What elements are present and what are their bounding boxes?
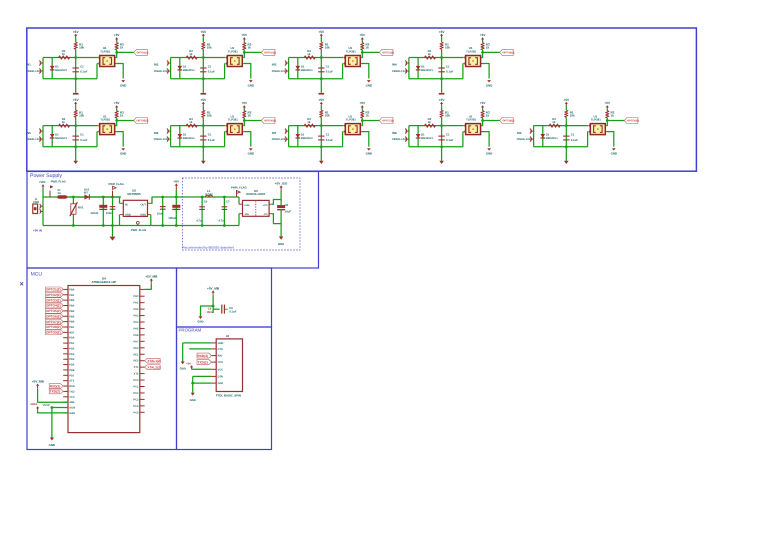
- net label OPTO5 mcu: [46, 308, 64, 313]
- svg-text:PB7: PB7: [69, 326, 75, 329]
- diode D7: [297, 126, 299, 147]
- capacitor C10 bulk: [102, 197, 104, 226]
- resistor R8B: [425, 124, 436, 127]
- wire emitter pin: [224, 63, 227, 65]
- wire: [280, 191, 282, 206]
- ground GND4B: [487, 80, 491, 82]
- pin L16: [63, 369, 68, 371]
- wire left: [170, 126, 172, 147]
- svg-text:100n: 100n: [206, 311, 212, 314]
- net label OPTO9 mcu: [46, 330, 64, 335]
- ground GND3B: [367, 80, 371, 82]
- svg-text:+5V: +5V: [242, 33, 249, 37]
- net label OPTO7: [379, 118, 393, 124]
- svg-text:GND: GND: [486, 152, 492, 156]
- resistor R5B: [59, 124, 70, 127]
- net label OPTO3 mcu: [46, 298, 64, 303]
- resistor R2A: [202, 42, 205, 49]
- wire cap node: [52, 407, 68, 409]
- svg-text:PD0: PD0: [69, 337, 75, 340]
- svg-text:C6: C6: [204, 200, 208, 203]
- capacitor C8: [438, 135, 444, 137]
- pin L8: [63, 326, 68, 328]
- svg-text:XTAL1(2): XTAL1(2): [147, 359, 160, 363]
- svg-text:10k: 10k: [207, 113, 212, 117]
- connector IN1: [40, 62, 44, 64]
- wire bottom rail: [289, 146, 343, 148]
- pin R19: [140, 411, 145, 413]
- optocoupler U3: [345, 56, 360, 67]
- pin L20: [63, 390, 68, 392]
- wire to label: [117, 120, 134, 122]
- wire emitter pin: [462, 63, 465, 65]
- svg-text:IN2: IN2: [154, 63, 159, 67]
- svg-text:100n: 100n: [106, 212, 112, 215]
- wire J2 pin7: [193, 382, 212, 384]
- opto channel 4: [392, 30, 514, 95]
- svg-text:+5V: +5V: [73, 98, 80, 102]
- wire input vertical: [42, 197, 44, 226]
- svg-text:IN: IN: [125, 203, 128, 206]
- connector IN2: [167, 62, 171, 64]
- wire collector: [115, 57, 116, 59]
- junction: [320, 145, 323, 148]
- svg-text:C1: C1: [208, 65, 212, 69]
- svg-text:D1: D1: [55, 64, 59, 68]
- svg-text:PB6: PB6: [69, 321, 75, 324]
- svg-text:GND: GND: [486, 83, 492, 87]
- svg-text:4.7u: 4.7u: [219, 219, 225, 222]
- svg-text:1k: 1k: [428, 120, 432, 124]
- wire collector: [605, 125, 606, 127]
- svg-text:4.7u: 4.7u: [196, 219, 202, 222]
- svg-text:C1: C1: [80, 133, 84, 137]
- ground GND5A: [73, 161, 78, 164]
- svg-text:RST: RST: [69, 331, 75, 334]
- opto channel 1: [26, 30, 148, 95]
- ground GND8B: [487, 148, 491, 150]
- svg-text:MC78M05: MC78M05: [127, 192, 141, 196]
- svg-text:+VIN: +VIN: [244, 204, 250, 207]
- wire converter -VOUT: [269, 213, 272, 215]
- pin L11: [63, 342, 68, 344]
- ground GND3A: [319, 93, 325, 95]
- diode D3: [297, 58, 299, 79]
- pin R7: [140, 334, 145, 336]
- wire left: [533, 126, 535, 147]
- svg-text:PB0: PB0: [69, 288, 75, 291]
- wire emitter to ground: [115, 131, 116, 133]
- svg-text:1k: 1k: [248, 113, 252, 117]
- ground GND_ISO: [279, 237, 284, 240]
- capacitor C6: [200, 135, 206, 137]
- resistor R8C: [481, 111, 484, 118]
- wire emitter to ground: [605, 131, 606, 133]
- svg-text:GND: GND: [180, 367, 186, 371]
- svg-text:+5V: +5V: [318, 98, 325, 102]
- wire top rail: [43, 57, 98, 59]
- junction: [202, 124, 205, 127]
- resistor R9A: [565, 110, 568, 117]
- svg-text:IN3: IN3: [272, 63, 277, 67]
- wire: [75, 117, 77, 125]
- diode D9: [542, 126, 544, 147]
- svg-text:AGN: AGN: [69, 407, 75, 410]
- wire to ground: [202, 79, 204, 93]
- wire left: [42, 58, 44, 79]
- junction: [320, 77, 323, 80]
- svg-text:0.1uF: 0.1uF: [208, 138, 216, 142]
- svg-text:ARF: ARF: [69, 401, 75, 404]
- pin R8: [140, 340, 145, 342]
- svg-text:PINHD-1X2: PINHD-1X2: [26, 138, 40, 141]
- svg-text:D1: D1: [421, 64, 425, 68]
- connector J1 power jack: [33, 204, 38, 214]
- svg-text:+5V: +5V: [114, 33, 121, 37]
- pin L21: [63, 396, 68, 398]
- pin R5: [140, 321, 145, 323]
- net label OPTO2: [261, 49, 275, 55]
- svg-text:GND: GND: [611, 152, 617, 156]
- svg-text:4.7uH: 4.7uH: [205, 193, 212, 196]
- svg-text:OPTO2(2): OPTO2(2): [264, 51, 276, 54]
- svg-text:IN7: IN7: [272, 131, 277, 135]
- resistor R9B: [549, 124, 560, 127]
- pin J2-2: [211, 348, 216, 350]
- wire: [441, 49, 443, 57]
- net label TXD mcu: [49, 389, 63, 394]
- svg-text:+5V: +5V: [114, 101, 121, 105]
- opto channel 7: [272, 98, 394, 164]
- wire emitter to ground: [481, 63, 482, 65]
- net label OPTO6 mcu: [46, 314, 64, 319]
- ground GND7B: [367, 148, 371, 150]
- wire bottom rail: [409, 78, 463, 80]
- net label OPTO8: [500, 118, 514, 124]
- svg-text:PROGRAM: PROGRAM: [179, 327, 202, 332]
- svg-text:+5V_ISO: +5V_ISO: [275, 181, 288, 185]
- ground GND2B: [249, 80, 253, 82]
- diode D1: [51, 58, 53, 79]
- wire collector: [115, 125, 116, 127]
- svg-text:+VO: +VO: [263, 204, 268, 207]
- wire emitter pin: [462, 131, 465, 133]
- wire to ground: [75, 79, 77, 93]
- pin R17: [140, 398, 145, 400]
- frame MCU section: [27, 268, 177, 450]
- svg-text:1k: 1k: [62, 120, 66, 124]
- wire left: [408, 58, 410, 79]
- frame recommended circuit dashed box: [182, 178, 300, 250]
- pin L17: [63, 374, 68, 376]
- svg-text:OPTO4(2): OPTO4(2): [502, 51, 514, 54]
- opto channel 3: [272, 30, 394, 95]
- svg-text:GND: GND: [248, 83, 254, 87]
- svg-text:PB3: PB3: [69, 305, 75, 308]
- svg-text:TLP281: TLP281: [591, 118, 601, 122]
- svg-text:PE1: PE1: [133, 353, 138, 356]
- svg-text:D1: D1: [301, 132, 305, 136]
- connector IN8: [405, 130, 409, 132]
- pin J2-4: [211, 361, 216, 363]
- wire top rail: [409, 125, 464, 127]
- svg-text:10k: 10k: [79, 113, 84, 117]
- svg-text:MM3Z5V1: MM3Z5V1: [301, 69, 314, 72]
- wire emitter pin: [224, 131, 227, 133]
- svg-text:OPTO3(2): OPTO3(2): [46, 298, 61, 302]
- svg-text:OPTO5(2): OPTO5(2): [137, 119, 149, 122]
- svg-text:+5V: +5V: [174, 179, 181, 183]
- pin L19: [63, 385, 68, 387]
- diode D2: [179, 58, 181, 79]
- svg-text:10k: 10k: [79, 45, 84, 49]
- pin L6: [63, 315, 68, 317]
- wire collector: [360, 125, 361, 127]
- svg-text:PD6: PD6: [69, 369, 75, 372]
- svg-text:PA2: PA2: [134, 308, 139, 311]
- pin R15: [140, 386, 145, 388]
- junction: [565, 124, 568, 127]
- power flag PWR_FLAG3: [136, 221, 139, 224]
- svg-text:10k: 10k: [207, 45, 212, 49]
- svg-text:GND: GND: [197, 319, 203, 323]
- svg-text:MM3Z5V1: MM3Z5V1: [421, 69, 434, 72]
- junction: [202, 145, 205, 148]
- svg-text:IN5: IN5: [26, 131, 31, 135]
- connector IN7: [285, 130, 289, 132]
- ground GND5B: [121, 148, 125, 150]
- svg-text:+5V: +5V: [200, 30, 207, 34]
- capacitor C11: [112, 197, 114, 226]
- ground GND6A: [201, 161, 206, 164]
- optocoupler U9: [590, 124, 605, 135]
- wire top rail: [289, 125, 344, 127]
- net label OPTO6: [261, 118, 275, 124]
- svg-text:IN9: IN9: [517, 131, 522, 135]
- svg-text:PB4: PB4: [69, 310, 75, 313]
- wire left: [42, 126, 44, 147]
- svg-text:PWR_FLAG: PWR_FLAG: [51, 181, 66, 184]
- wire main vertical: [75, 126, 77, 147]
- junction: [440, 124, 443, 127]
- svg-text:OPTO1(2): OPTO1(2): [137, 51, 149, 54]
- svg-text:10k: 10k: [445, 45, 450, 49]
- wire to ground: [320, 147, 322, 161]
- inductor L1: [202, 196, 239, 198]
- net label RXD mcu: [49, 384, 63, 389]
- wire top rail: [171, 57, 226, 59]
- wire collector: [242, 57, 243, 59]
- wire top rail: [289, 57, 344, 59]
- net label XTAL2: [145, 365, 161, 370]
- svg-text:TLP281: TLP281: [346, 118, 356, 122]
- pin R1: [140, 295, 145, 297]
- svg-text:DTR: DTR: [218, 375, 223, 378]
- ground GND1B: [121, 80, 125, 82]
- svg-text:OPTO2(2): OPTO2(2): [46, 293, 61, 297]
- wire: [68, 196, 82, 198]
- origin marker: [20, 282, 23, 285]
- pin L1: [63, 288, 68, 290]
- wire to converter: [238, 197, 240, 204]
- svg-text:PB2: PB2: [69, 299, 75, 302]
- svg-text:+9V IN: +9V IN: [33, 228, 42, 232]
- capacitor C12: [162, 197, 164, 226]
- svg-text:+5V: +5V: [563, 98, 570, 102]
- svg-text:IN1: IN1: [26, 63, 31, 67]
- connector IN3: [285, 62, 289, 64]
- wire: [212, 295, 214, 309]
- ground program 2: [191, 393, 195, 396]
- svg-text:+5V: +5V: [605, 101, 612, 105]
- junction: [440, 56, 443, 59]
- svg-text:+5V_MB: +5V_MB: [32, 380, 45, 384]
- svg-text:GN2: GN2: [218, 382, 224, 385]
- resistor R1A: [74, 42, 77, 49]
- wire: [565, 117, 567, 125]
- svg-text:PWR_FLAG: PWR_FLAG: [231, 186, 247, 190]
- wire main vertical: [202, 58, 204, 79]
- wire left: [170, 58, 172, 79]
- wire to label: [483, 120, 500, 122]
- svg-text:GND: GND: [125, 213, 131, 216]
- svg-text:MM3Z5V1: MM3Z5V1: [301, 137, 314, 140]
- wire regulator out: [148, 202, 151, 204]
- svg-text:C1: C1: [446, 65, 450, 69]
- svg-text:TLP281: TLP281: [346, 49, 356, 53]
- svg-text:OPTO6(2): OPTO6(2): [264, 119, 276, 122]
- opto channel 2: [154, 30, 276, 95]
- optocoupler U6: [227, 124, 242, 135]
- pin L12: [63, 347, 68, 349]
- svg-text:MM3Z5V1: MM3Z5V1: [546, 137, 559, 140]
- svg-text:PC3: PC3: [133, 398, 139, 401]
- capacitor C15: [223, 197, 225, 226]
- wire vcc: [145, 283, 152, 289]
- svg-text:PINHD-1X2: PINHD-1X2: [272, 70, 286, 73]
- wire to ground: [441, 147, 443, 161]
- svg-text:OPTO8(2): OPTO8(2): [502, 119, 514, 122]
- wire bottom rail: [43, 146, 97, 148]
- resistor R9C: [606, 111, 609, 118]
- svg-text:OPTO8(2): OPTO8(2): [46, 325, 61, 329]
- resistor R1B: [59, 56, 70, 59]
- pin R13: [140, 373, 145, 375]
- svg-text:PD2: PD2: [69, 347, 75, 350]
- svg-text:D1: D1: [301, 64, 305, 68]
- junction: [320, 124, 323, 127]
- wire top rail: [171, 125, 226, 127]
- svg-text:GND: GND: [69, 412, 75, 415]
- svg-text:RXD: RXD: [69, 385, 75, 388]
- pin L2: [63, 294, 68, 296]
- svg-text:-VO: -VO: [263, 213, 267, 216]
- svg-text:GND: GND: [190, 398, 196, 402]
- svg-text:1k: 1k: [486, 45, 490, 49]
- microcontroller U4: [68, 286, 140, 433]
- resistor R7C: [361, 111, 364, 118]
- svg-text:OPTO3(2): OPTO3(2): [382, 51, 394, 54]
- wire main vertical: [202, 126, 204, 147]
- pin J2-5: [211, 368, 216, 370]
- svg-text:PA5: PA5: [134, 327, 139, 330]
- pin L7: [63, 321, 68, 323]
- wire J2 pin6: [193, 375, 212, 377]
- connector IN9: [530, 130, 534, 132]
- net label OPTO4: [500, 49, 514, 55]
- svg-text:1k: 1k: [611, 113, 615, 117]
- resistor R8A: [440, 110, 443, 117]
- resistor R5C: [115, 111, 118, 118]
- svg-text:C1: C1: [446, 133, 450, 137]
- pin R10: [140, 353, 145, 355]
- svg-text:0.1uF: 0.1uF: [571, 138, 579, 142]
- svg-text:OUT: OUT: [141, 203, 147, 206]
- diode D10: [82, 196, 95, 198]
- resistor R6C: [243, 111, 246, 118]
- svg-text:1k: 1k: [307, 120, 311, 124]
- svg-text:0.1uF: 0.1uF: [80, 138, 88, 142]
- opto channel 8: [392, 98, 514, 164]
- wire: [320, 49, 322, 57]
- wire: [175, 190, 177, 197]
- net label TXD program: [197, 360, 211, 365]
- svg-text:PD1: PD1: [69, 342, 75, 345]
- junction: [440, 77, 443, 80]
- fuse F1: [58, 195, 68, 198]
- svg-text:+5V: +5V: [439, 30, 446, 34]
- wire: [320, 117, 322, 125]
- svg-text:+5V: +5V: [360, 101, 367, 105]
- frame decoupling section: [177, 268, 272, 327]
- wire to label: [483, 51, 500, 53]
- wire emitter pin: [342, 63, 345, 65]
- svg-text:1k: 1k: [189, 120, 193, 124]
- svg-text:GND: GND: [278, 242, 284, 246]
- svg-text:1k: 1k: [248, 45, 252, 49]
- svg-text:10uF: 10uF: [285, 210, 292, 213]
- wire emitter to ground: [481, 131, 482, 133]
- net label OPTO3: [379, 49, 393, 55]
- pin R4: [140, 315, 145, 317]
- resistor R1C: [115, 43, 118, 50]
- svg-text:OPTO1(2): OPTO1(2): [46, 288, 61, 292]
- wire converter +VOUT: [269, 203, 272, 205]
- svg-text:PC2: PC2: [133, 392, 139, 395]
- svg-text:PA1: PA1: [134, 302, 139, 305]
- svg-text:C1: C1: [326, 133, 330, 137]
- svg-text:1k: 1k: [62, 52, 66, 56]
- svg-text:C1: C1: [80, 65, 84, 69]
- svg-text:10k: 10k: [325, 113, 330, 117]
- svg-text:RXD(2): RXD(2): [50, 384, 61, 388]
- svg-text:+5V_MB: +5V_MB: [207, 286, 220, 290]
- connector IN6: [167, 130, 171, 132]
- svg-text:PB5: PB5: [69, 315, 75, 318]
- svg-text:PA3: PA3: [134, 315, 139, 318]
- svg-text:PINHD-1X2: PINHD-1X2: [154, 138, 168, 141]
- svg-text:IN8: IN8: [392, 131, 397, 135]
- pin L24: [63, 412, 68, 414]
- wire emitter to ground: [242, 131, 243, 133]
- svg-text:-VIN: -VIN: [244, 213, 249, 216]
- capacitor C14: [201, 197, 203, 226]
- svg-text:0.1uF: 0.1uF: [80, 70, 88, 74]
- optocoupler U7: [345, 124, 360, 135]
- wire left: [408, 126, 410, 147]
- svg-text:C7: C7: [226, 200, 230, 203]
- svg-text:1k: 1k: [428, 52, 432, 56]
